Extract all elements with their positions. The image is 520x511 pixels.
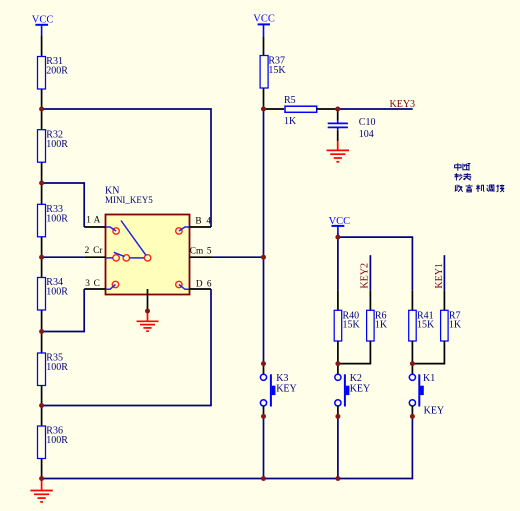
- svg-text:KEY: KEY: [350, 383, 371, 394]
- pin 3 C: [84, 279, 105, 289]
- wire R32 to node: [41, 162, 43, 183]
- resistor R36: [38, 426, 69, 459]
- wire node to KEY3: [338, 108, 413, 110]
- wire K1 to bus corner: [411, 416, 414, 478]
- wire K3 to bus: [263, 416, 265, 478]
- svg-text:100R: 100R: [46, 213, 68, 224]
- char 秒: [454, 173, 462, 180]
- svg-text:4: 4: [206, 216, 211, 226]
- wire node to pin D6 (via corner): [42, 289, 211, 406]
- svg-text:15K: 15K: [343, 320, 361, 331]
- node junction K3 top: [261, 361, 266, 366]
- wire K2 to bus: [337, 416, 339, 478]
- char 机: [476, 185, 484, 192]
- resistor R35: [38, 353, 69, 386]
- svg-text:VCC: VCC: [253, 14, 275, 25]
- pin D 6: [190, 279, 212, 289]
- node junction R31/R32: [39, 107, 44, 112]
- power VCC (top middle): [253, 14, 275, 37]
- svg-text:100R: 100R: [46, 139, 68, 150]
- node K3 bottom: [261, 414, 266, 419]
- wire VCC to R31: [41, 35, 43, 56]
- char 表: [463, 173, 471, 180]
- wire R41 to node: [411, 341, 413, 364]
- switch K3: [260, 364, 296, 417]
- svg-text:Cr: Cr: [93, 246, 103, 256]
- node junction under R37: [261, 107, 266, 112]
- wire R37 to node: [263, 88, 265, 109]
- node junction R5/C10: [335, 107, 340, 112]
- wire node to R34: [41, 257, 43, 277]
- ground (bottom left): [30, 479, 52, 502]
- char 音: [466, 185, 473, 192]
- char 中: [455, 163, 461, 170]
- node K2 bottom: [335, 414, 340, 419]
- resistor R31: [38, 56, 69, 89]
- resistor R6: [367, 310, 388, 341]
- char 收: [455, 185, 463, 192]
- node junction R33/R34: [39, 255, 44, 260]
- wire R36 to ground node: [41, 459, 43, 479]
- pin 7 common (bottom): [147, 289, 149, 311]
- power VCC (left): [32, 14, 54, 35]
- switch K2: [335, 364, 370, 417]
- wire R31 to node: [41, 89, 43, 109]
- svg-text:5: 5: [207, 246, 212, 256]
- node junction VCC right: [335, 235, 340, 240]
- resistor R37: [260, 56, 286, 89]
- switch K1: [409, 364, 444, 417]
- node junction bottom-left: [39, 476, 44, 481]
- svg-text:1K: 1K: [375, 320, 388, 331]
- svg-text:104: 104: [359, 129, 374, 140]
- svg-text:K1: K1: [423, 373, 435, 384]
- wire node to C10: [337, 109, 339, 120]
- svg-text:3: 3: [85, 279, 90, 289]
- resistor R32: [38, 129, 69, 162]
- svg-text:C: C: [94, 279, 100, 289]
- svg-text:15K: 15K: [268, 65, 286, 76]
- wire node to R41 (corner): [338, 237, 413, 290]
- svg-text:R5: R5: [284, 95, 296, 106]
- wire VCC stem to node: [337, 233, 339, 237]
- key switch KN MINI_KEY5: [105, 186, 190, 295]
- svg-text:D: D: [196, 279, 203, 289]
- wire node to R32: [41, 109, 43, 130]
- resistor R40: [334, 310, 360, 341]
- switch contact circles: [112, 228, 182, 288]
- wire node to R36: [41, 406, 43, 427]
- svg-text:6: 6: [207, 279, 212, 289]
- svg-text:15K: 15K: [417, 320, 435, 331]
- wire node to R5: [264, 108, 285, 110]
- node below box: [145, 309, 150, 314]
- wire node to pin 1A: [42, 183, 85, 227]
- svg-text:2: 2: [85, 246, 90, 256]
- wire node to pin 2Cr: [42, 256, 85, 258]
- resistor R5: [284, 95, 317, 127]
- svg-text:A: A: [94, 215, 101, 225]
- wire R40 to node: [337, 341, 339, 364]
- wire KEY2 stub: [369, 255, 371, 290]
- wire Cm5 to center column: [211, 256, 264, 258]
- wire R35 to node: [41, 386, 43, 406]
- pin Cm 5: [190, 246, 212, 257]
- node junction Cm5/center: [261, 255, 266, 260]
- wire center column vertical: [263, 109, 265, 364]
- wire bottom bus: [42, 478, 412, 480]
- node junction bus/K2: [335, 476, 340, 481]
- annotation Chinese text 中断/秒表/收音机调接: [454, 163, 504, 192]
- wire node to pin B4 (right, via corner): [42, 109, 211, 227]
- svg-text:C10: C10: [359, 117, 376, 128]
- wire C10 to ground: [337, 130, 339, 141]
- svg-text:Cm: Cm: [190, 246, 204, 256]
- svg-text:100R: 100R: [46, 287, 68, 298]
- wire node down to R40: [337, 237, 339, 290]
- char 接: [496, 185, 504, 192]
- wire R5 to node: [317, 108, 338, 110]
- svg-text:KEY3: KEY3: [390, 99, 416, 110]
- node junction R32/R33: [39, 181, 44, 186]
- node junction R40/R6/K2: [335, 361, 340, 366]
- wire R6 to node (corner): [338, 341, 371, 364]
- svg-text:VCC: VCC: [32, 14, 54, 25]
- resistor R7: [441, 310, 462, 341]
- node junction R34/R35: [39, 329, 44, 334]
- wire KEY1 stub: [443, 255, 445, 290]
- svg-text:KEY: KEY: [276, 383, 297, 394]
- char 断: [463, 163, 471, 170]
- ground (under C10): [327, 141, 349, 162]
- pin 1 A: [84, 215, 105, 227]
- svg-text:1K: 1K: [284, 116, 297, 127]
- node junction bus/K3: [261, 476, 266, 481]
- svg-text:100R: 100R: [46, 435, 68, 446]
- svg-text:1: 1: [86, 215, 91, 225]
- wire R33 to node: [41, 237, 43, 257]
- svg-text:KEY2: KEY2: [360, 263, 371, 289]
- resistor R34: [38, 277, 69, 310]
- capacitor C10: [328, 117, 376, 140]
- svg-text:1K: 1K: [449, 320, 462, 331]
- wire R34 to node: [41, 310, 43, 332]
- svg-text:MINI_KEY5: MINI_KEY5: [105, 195, 153, 206]
- svg-text:B: B: [195, 216, 201, 226]
- pin B 4: [190, 216, 212, 227]
- resistor R41: [409, 310, 435, 341]
- svg-text:KEY: KEY: [424, 406, 445, 417]
- svg-text:KEY1: KEY1: [434, 263, 445, 289]
- wire R7 to node (corner): [412, 341, 444, 364]
- switch lever and links (blue): [106, 221, 190, 290]
- node K1 bottom: [410, 414, 415, 419]
- wire VCC to R37: [263, 37, 265, 56]
- wire node to R35: [41, 332, 43, 354]
- node junction R41/R7/K1: [410, 361, 415, 366]
- pin 2 Cr: [84, 246, 105, 257]
- power VCC (right): [329, 216, 351, 233]
- svg-text:100R: 100R: [46, 362, 68, 373]
- wire node to pin 3C: [42, 289, 85, 332]
- resistor R33: [38, 204, 69, 237]
- node junction R35/R36: [39, 403, 44, 408]
- ground (below KN box): [137, 311, 159, 331]
- char 调: [487, 185, 494, 192]
- wire node to R33: [41, 183, 43, 204]
- svg-text:200R: 200R: [46, 66, 68, 77]
